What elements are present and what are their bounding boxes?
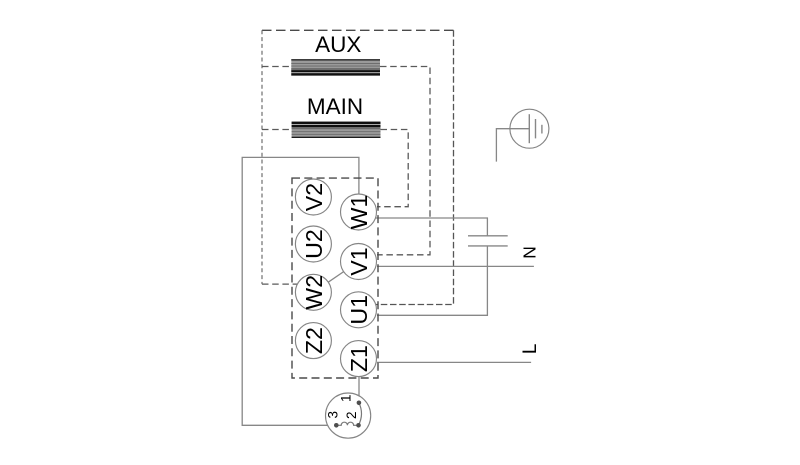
capacitor	[468, 236, 508, 246]
heater squiggle pin3 to pin2	[336, 422, 358, 425]
svg-text:U2: U2	[301, 229, 327, 259]
wire: solid from V1 to N	[377, 265, 534, 267]
wire: top dashed of protector loop	[262, 29, 454, 31]
wire: solid thermal-protector loop from W1 top around left side to sensor pin 3	[242, 157, 359, 425]
jumper between W2 and V1	[313, 262, 358, 293]
svg-text:AUX: AUX	[315, 32, 361, 57]
terminal W1	[341, 194, 377, 230]
svg-text:MAIN: MAIN	[307, 94, 363, 119]
wire: solid from Z1 to L	[377, 361, 531, 363]
svg-text:N: N	[520, 246, 540, 259]
wire: solid from Z1 bottom to sensor pin 1	[358, 377, 360, 404]
ground symbol (protective earth)	[496, 109, 549, 161]
wire: ground lead	[496, 129, 529, 162]
svg-text:V1: V1	[346, 247, 372, 275]
contact arc pin1 to pin2	[359, 403, 362, 426]
wire: left dashed vertical (common to AUX/MAIN/W2)	[261, 30, 263, 284]
svg-text:Z2: Z2	[301, 327, 327, 354]
wire: dashed AUX right terminal to V1	[377, 67, 430, 255]
terminal U2	[295, 226, 331, 262]
svg-text:U1: U1	[346, 295, 372, 325]
thermal sensor (Klixon switch)	[326, 393, 371, 438]
wire: dashed stub to MAIN winding left terminal	[262, 129, 292, 131]
svg-text:1: 1	[339, 394, 354, 402]
wire: solid from capacitor bottom plate to U1	[377, 246, 487, 315]
terminal Z2	[295, 323, 331, 359]
svg-text:W2: W2	[301, 275, 327, 310]
svg-text:V2: V2	[301, 183, 327, 211]
terminal V2	[295, 179, 331, 215]
terminal box dashed outline	[292, 178, 378, 378]
wire: dashed from left vertical to terminal W2	[262, 283, 314, 285]
svg-text:W1: W1	[346, 195, 372, 230]
wire: dashed stub to AUX winding left terminal	[262, 66, 291, 68]
wire: dashed MAIN right terminal to W1	[377, 130, 408, 207]
svg-text:2: 2	[344, 411, 359, 419]
pin 1 dot	[357, 401, 362, 406]
pin 3 dot	[334, 423, 339, 428]
terminal V1	[341, 244, 377, 280]
svg-text:Z1: Z1	[346, 345, 372, 372]
terminal U1	[341, 292, 377, 328]
svg-text:3: 3	[326, 411, 341, 419]
svg-text:L: L	[520, 344, 541, 355]
winding MAIN (main winding)	[292, 122, 381, 138]
pin 2 dot	[356, 423, 361, 428]
winding AUX (auxiliary winding)	[291, 59, 380, 75]
wire: right dashed vertical down to U1	[360, 30, 454, 304]
terminal Z1	[341, 341, 377, 377]
terminal W2	[295, 274, 331, 310]
wire: solid from W1 to capacitor top plate	[374, 218, 487, 236]
